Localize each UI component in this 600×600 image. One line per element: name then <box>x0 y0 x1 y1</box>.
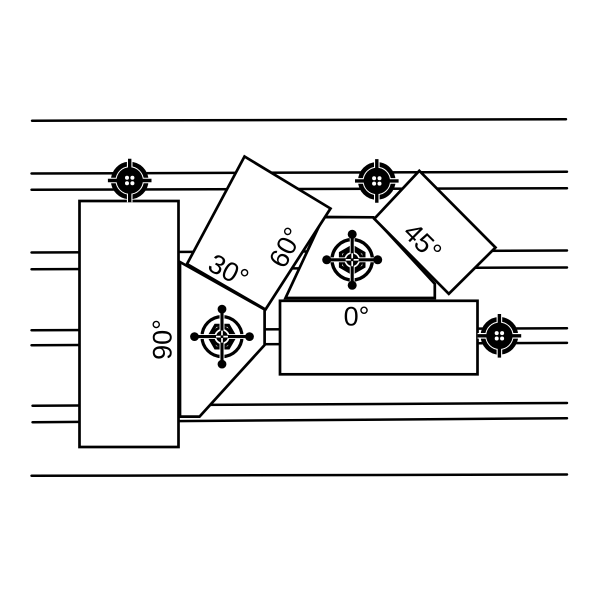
svg-text:0°: 0° <box>344 302 370 332</box>
svg-text:90°: 90° <box>148 319 178 360</box>
